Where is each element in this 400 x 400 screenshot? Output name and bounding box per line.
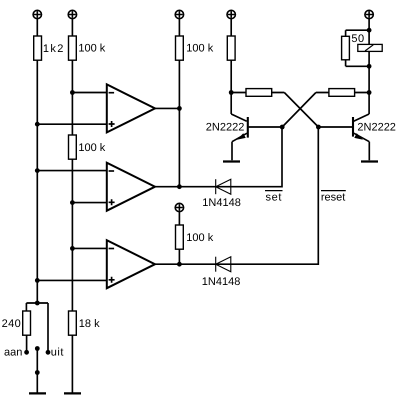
svg-text:100 k: 100 k [78, 142, 105, 154]
svg-text:1k2: 1k2 [43, 43, 65, 55]
svg-text:1N4148: 1N4148 [202, 276, 241, 288]
svg-text:100 k: 100 k [78, 43, 105, 55]
svg-text:set: set [266, 191, 282, 203]
svg-text:18 k: 18 k [79, 318, 100, 330]
svg-text:1N4148: 1N4148 [202, 197, 241, 209]
svg-text:reset: reset [321, 191, 345, 203]
svg-text:2N2222: 2N2222 [357, 122, 396, 134]
svg-text:100 k: 100 k [186, 43, 213, 55]
svg-text:240: 240 [2, 318, 22, 330]
svg-text:uit: uit [51, 346, 64, 358]
svg-text:2N2222: 2N2222 [206, 122, 245, 134]
svg-text:aan: aan [4, 346, 22, 358]
svg-text:100 k: 100 k [186, 232, 213, 244]
svg-text:50: 50 [351, 33, 364, 45]
